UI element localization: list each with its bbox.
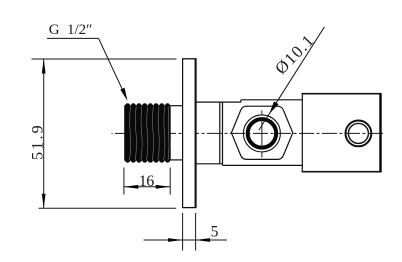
svg-text:5: 5 — [211, 224, 219, 241]
svg-text:51.9: 51.9 — [30, 123, 47, 160]
svg-text:G: G — [49, 22, 60, 38]
svg-text:1/2″: 1/2″ — [67, 22, 92, 38]
svg-text:16: 16 — [139, 173, 155, 190]
